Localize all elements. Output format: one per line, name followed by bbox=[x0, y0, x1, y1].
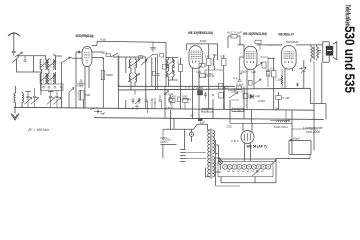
svg-text:WE REEL-IV: WE REEL-IV bbox=[279, 33, 295, 37]
svg-text:530 und 535: 530 und 535 bbox=[342, 26, 358, 93]
svg-text:4,65: 4,65 bbox=[100, 37, 106, 41]
svg-text:0,1: 0,1 bbox=[103, 50, 108, 54]
svg-text:220: 220 bbox=[227, 125, 232, 129]
svg-text:50µF: 50µF bbox=[293, 137, 300, 141]
svg-text:WE 30(RENS1264): WE 30(RENS1264) bbox=[243, 32, 267, 36]
svg-text:50: 50 bbox=[190, 114, 194, 118]
svg-text:RES964n: RES964n bbox=[286, 40, 299, 44]
svg-text:0,1M: 0,1M bbox=[283, 96, 290, 100]
svg-text:0,1: 0,1 bbox=[177, 61, 182, 65]
svg-text:50µF: 50µF bbox=[77, 84, 84, 88]
svg-text:10000: 10000 bbox=[228, 88, 237, 92]
svg-text:0,1µF: 0,1µF bbox=[236, 82, 244, 86]
svg-text:100: 100 bbox=[196, 70, 201, 74]
svg-text:WE 54 (AF 7): WE 54 (AF 7) bbox=[247, 145, 267, 149]
svg-text:ALC 0,1µF: ALC 0,1µF bbox=[227, 31, 242, 35]
svg-text:4000: 4000 bbox=[200, 39, 207, 43]
svg-text:4µF: 4µF bbox=[100, 112, 106, 116]
svg-text:Telefunken: Telefunken bbox=[344, 5, 353, 27]
svg-text:WE 30(RENS1234): WE 30(RENS1234) bbox=[188, 31, 213, 35]
svg-text:0,1: 0,1 bbox=[221, 55, 226, 59]
svg-text:A B C: A B C bbox=[231, 139, 240, 143]
svg-text:4355: 4355 bbox=[196, 86, 203, 90]
svg-text:ZF = 468 kHz: ZF = 468 kHz bbox=[27, 128, 49, 132]
svg-text:5000: 5000 bbox=[106, 73, 113, 77]
svg-text:1,2M: 1,2M bbox=[206, 72, 213, 76]
svg-text:und 2000: und 2000 bbox=[306, 130, 320, 134]
svg-text:0,5M: 0,5M bbox=[258, 99, 265, 103]
svg-text:0,1: 0,1 bbox=[241, 90, 246, 94]
svg-text:1µF: 1µF bbox=[251, 70, 257, 74]
svg-text:CA 33: CA 33 bbox=[85, 34, 94, 38]
svg-text:7,5: 7,5 bbox=[204, 108, 209, 112]
svg-text:2µF: 2µF bbox=[255, 94, 261, 98]
svg-text:1,25: 1,25 bbox=[275, 78, 281, 82]
svg-text:110V~: 110V~ bbox=[160, 140, 169, 144]
svg-text:10MΩ: 10MΩ bbox=[183, 97, 192, 101]
svg-text:C 50: C 50 bbox=[234, 108, 241, 112]
svg-text:7000 Ohm: 7000 Ohm bbox=[274, 125, 289, 129]
svg-text:150: 150 bbox=[166, 106, 171, 110]
svg-text:0,1: 0,1 bbox=[233, 76, 238, 80]
svg-text:0,1µF: 0,1µF bbox=[166, 92, 174, 96]
svg-text:500: 500 bbox=[85, 93, 90, 97]
svg-text:20000: 20000 bbox=[169, 78, 178, 82]
